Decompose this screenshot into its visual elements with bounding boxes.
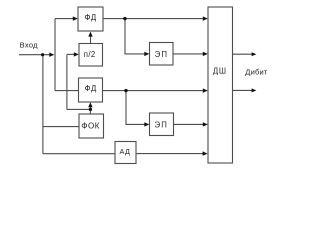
- svg-text:ФД: ФД: [85, 84, 97, 93]
- svg-text:Дибит: Дибит: [245, 68, 268, 77]
- svg-text:п/2: п/2: [84, 50, 96, 59]
- svg-text:ДШ: ДШ: [213, 66, 227, 75]
- svg-text:АД: АД: [119, 147, 130, 156]
- svg-text:ЭП: ЭП: [155, 50, 168, 59]
- svg-text:ЭП: ЭП: [155, 121, 168, 130]
- svg-text:ФОК: ФОК: [81, 122, 99, 131]
- svg-text:Вход: Вход: [20, 40, 38, 49]
- svg-text:ФД: ФД: [84, 13, 96, 22]
